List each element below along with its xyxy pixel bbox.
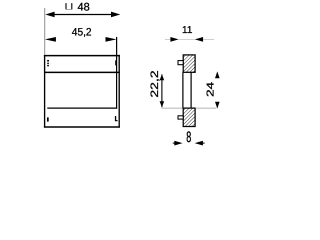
front view: right outer edge [118, 55, 120, 128]
dimension 22,2: line [161, 74, 163, 107]
svg-text:11: 11 [182, 25, 193, 36]
dimension 24: bottom extension line (grey) [196, 107, 217, 109]
dimension 22,2: top arrow [160, 74, 165, 80]
dimension 24: top arrow [215, 71, 220, 78]
arrow 45,2 left [45, 37, 56, 42]
front view: horizontal mid line [44, 71, 120, 73]
arrow 45,2 right [106, 37, 117, 42]
front view: left edge [44, 55, 46, 128]
svg-text:45,2: 45,2 [72, 27, 92, 39]
front view: top-left clip mark [47, 60, 49, 66]
dimension 11: right arrow (outside, pointing left) [195, 37, 203, 42]
dimension 24: bottom arrow [215, 102, 220, 109]
front view: top edge [44, 55, 120, 57]
front view: inner bottom line [47, 107, 117, 109]
svg-text:24: 24 [206, 81, 217, 97]
svg-text:48: 48 [78, 2, 90, 14]
front view: top-right clip mark [115, 60, 117, 65]
section: plate right edge between blocks [190, 72, 192, 108]
section: bottom latch tab [178, 116, 183, 119]
section: plate left edge between blocks [182, 72, 184, 108]
dimension line 48 [54, 14, 112, 16]
front view: bottom-left clip mark [47, 117, 49, 121]
dimension 22,2: bottom extension line (grey) [162, 107, 183, 109]
dimension 22,2: bottom arrow [160, 101, 165, 107]
dimension 11: left arrow (outside, pointing right) [170, 37, 178, 42]
front view: bottom edge [44, 126, 120, 128]
arrow 48 right [111, 12, 120, 18]
front view: bottom-right clip mark (L shape) [115, 116, 118, 121]
svg-text:8: 8 [186, 129, 191, 146]
dimension 8: right arrow (outside, pointing left) [195, 141, 203, 146]
dimension 8: right tail [202, 142, 205, 144]
dimension 11: grey line between tips [179, 38, 195, 40]
arrow 48 left [45, 12, 54, 18]
dimension 11: grey tail right [203, 38, 214, 40]
dimension 8: left arrow (outside, pointing right) [174, 141, 182, 146]
dimension 8: left tail [173, 142, 176, 144]
front view: left extension line (grey, for 48 and 45,2) [44, 8, 46, 55]
svg-text:22,2: 22,2 [149, 70, 161, 97]
dimension 11: grey tail left [165, 38, 171, 40]
front view: inner right vertical line (45,2 right extension) [116, 37, 118, 109]
square symbol of dimension 48 [66, 3, 72, 9]
section: top latch tab [178, 61, 183, 65]
section: bottom flange block (hatched) [183, 108, 195, 126]
section: top flange block (hatched) [183, 55, 195, 72]
